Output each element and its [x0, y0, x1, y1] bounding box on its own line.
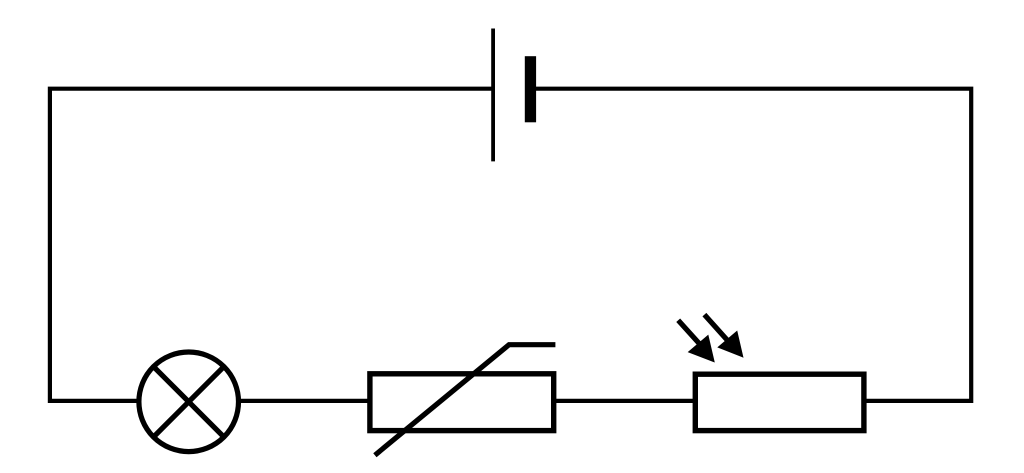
wire: [238, 399, 368, 403]
thermistor TH1 body: [370, 374, 554, 431]
LDR light arrow 1 shaft: [678, 320, 701, 345]
LDR R1 body: [695, 374, 864, 430]
wire: [50, 89, 493, 401]
LDR light arrow 2 shaft: [704, 315, 728, 342]
battery cell B1 negative plate: [525, 56, 536, 122]
wire: [536, 89, 971, 401]
battery cell B1 positive plate: [491, 29, 495, 162]
lamp L1: [139, 352, 239, 452]
wire: [556, 399, 693, 403]
LDR light arrow 2 head: [719, 332, 742, 356]
LDR light arrow 1 head: [690, 336, 714, 361]
thermistor TH1 diagonal stroke: [375, 345, 556, 456]
